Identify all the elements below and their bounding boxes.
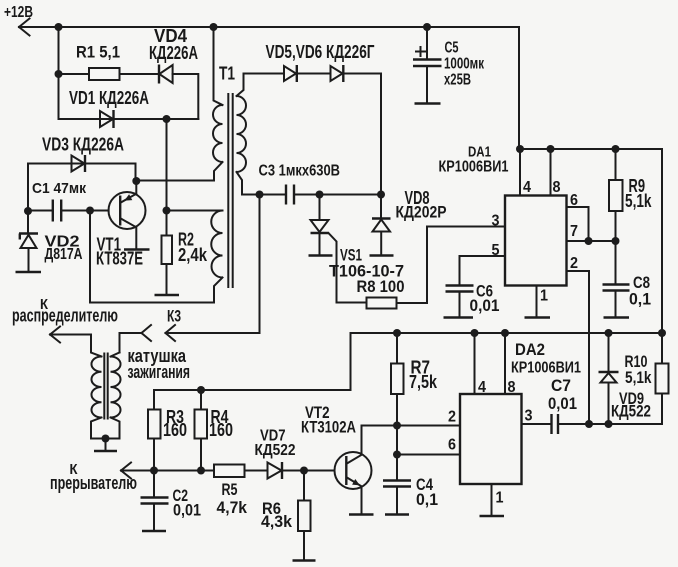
junction dot C1 left node bbox=[24, 207, 32, 215]
capacitor C4 bbox=[383, 455, 438, 514]
svg-text:КД522: КД522 bbox=[611, 402, 651, 421]
diode VD5 bbox=[284, 65, 297, 82]
diode VD9 bbox=[599, 333, 652, 424]
junction dot R1 row bbox=[55, 70, 63, 78]
resistor R2 bbox=[162, 229, 208, 265]
svg-text:К3: К3 bbox=[167, 307, 181, 326]
diode VD4 bbox=[149, 26, 198, 84]
svg-text:0,01: 0,01 bbox=[173, 501, 201, 520]
svg-text:прерывателю: прерывателю bbox=[50, 473, 137, 493]
diode VD1 bbox=[69, 88, 149, 128]
svg-text:КТ837Е: КТ837Е bbox=[96, 249, 143, 269]
ignition coil primary lead bbox=[91, 335, 102, 357]
capacitor C7 bbox=[548, 376, 662, 434]
capacitor C2 bbox=[141, 471, 202, 531]
node +12V supply rail bbox=[4, 4, 519, 36]
svg-text:Т1: Т1 bbox=[219, 63, 235, 83]
pin 1 DA2 wire and label bbox=[492, 484, 504, 515]
svg-text:Д817А: Д817А bbox=[45, 246, 83, 263]
wire left column VD3 to C1 node bbox=[27, 164, 29, 212]
ground coil bbox=[94, 450, 117, 453]
junction dot power row pin8 bbox=[547, 145, 555, 153]
svg-text:С1 47мк: С1 47мк bbox=[32, 180, 86, 197]
op-amp timer DA2 bbox=[460, 341, 581, 484]
pin 5 DA1 wire and label bbox=[460, 242, 506, 286]
pin 8 DA1 bbox=[551, 149, 561, 196]
junction dot C3 row left bbox=[256, 191, 264, 199]
svg-text:0,1: 0,1 bbox=[629, 290, 651, 309]
svg-text:КД202Р: КД202Р bbox=[396, 203, 447, 222]
svg-text:160: 160 bbox=[163, 420, 187, 440]
resistor R10 bbox=[625, 333, 669, 424]
wire VT1 base node down and across to T1 lower winding bottom bbox=[90, 211, 223, 303]
node K3 connector bbox=[120, 307, 260, 341]
transistor VT2 bbox=[301, 403, 372, 513]
junction dot R10 top bbox=[658, 329, 666, 337]
capacitor C6 bbox=[446, 282, 500, 317]
resistor R5 bbox=[214, 465, 268, 518]
svg-text:распределителю: распределителю bbox=[12, 306, 118, 326]
svg-text:4: 4 bbox=[478, 379, 486, 396]
svg-text:2,4k: 2,4k bbox=[178, 245, 208, 265]
svg-text:КР1006ВИ1: КР1006ВИ1 bbox=[511, 360, 581, 377]
wire VD4 to right side of R1 loop bbox=[173, 74, 199, 119]
junction dot VT1 emitter node bbox=[132, 177, 140, 185]
ground VD2 bbox=[16, 271, 42, 274]
ground VT2 emitter bbox=[349, 513, 374, 516]
svg-text:R5: R5 bbox=[222, 480, 238, 499]
capacitor C8 bbox=[603, 241, 652, 317]
ground R2 bbox=[155, 294, 180, 297]
diode VD7 bbox=[255, 428, 335, 480]
junction dot DA2 pin4 top bbox=[471, 329, 479, 337]
junction dot VS1 anode bbox=[316, 191, 324, 199]
svg-text:+12В: +12В bbox=[4, 4, 33, 21]
op-amp timer DA1 bbox=[439, 143, 567, 285]
junction dot VD1 row to R2 branch bbox=[163, 115, 171, 123]
wire R8 to DA1 pin 3 bbox=[397, 227, 506, 304]
resistor R9 bbox=[609, 149, 652, 241]
svg-text:С5: С5 bbox=[445, 40, 459, 57]
junction dot coil bottom bbox=[102, 435, 110, 443]
junction dot VT1 base node bbox=[86, 207, 94, 215]
wire VT2 collector row to DA2 pin2 bbox=[362, 425, 461, 427]
svg-text:зажигания: зажигания bbox=[128, 362, 191, 382]
diode VD3 bbox=[42, 134, 124, 172]
svg-text:3: 3 bbox=[492, 213, 500, 230]
pin 4 DA2 bbox=[475, 333, 487, 396]
wire right power row y333 bbox=[351, 333, 663, 390]
resistor R3 bbox=[148, 390, 187, 471]
wire vertical VD1 row down to R2 bbox=[166, 119, 168, 236]
svg-text:7: 7 bbox=[570, 223, 578, 240]
pin 8 DA2 bbox=[505, 333, 516, 396]
ground C2 bbox=[142, 530, 166, 533]
resistor R8 bbox=[357, 277, 405, 308]
wire R2 bottom lead bbox=[166, 264, 168, 294]
junction dot T1 lower winding top tap bbox=[163, 207, 171, 215]
junction dot R4 bottom node bbox=[197, 467, 205, 475]
svg-text:VD1 КД226А: VD1 КД226А bbox=[69, 88, 149, 108]
svg-text:3: 3 bbox=[525, 408, 533, 425]
svg-text:VD3 КД226А: VD3 КД226А bbox=[42, 134, 124, 154]
pin 3 DA2 wire and label bbox=[522, 408, 552, 425]
svg-text:0,01: 0,01 bbox=[470, 296, 500, 315]
wire R3/R4 rail bbox=[154, 389, 351, 391]
pin 1 DA1 wire and label bbox=[537, 286, 549, 317]
pin 4 DA1 bbox=[520, 149, 531, 196]
svg-text:VD5,VD6 КД226Г: VD5,VD6 КД226Г bbox=[266, 42, 375, 62]
svg-text:5,1k: 5,1k bbox=[625, 191, 652, 211]
capacitor C5 bbox=[413, 27, 485, 103]
junction dot R6 node bbox=[300, 467, 308, 475]
junction dot rail-T1 branch bbox=[210, 23, 218, 31]
wire pin2 node down to pin6 node bbox=[396, 426, 398, 455]
ground C8 bbox=[604, 316, 630, 319]
transistor VT1 bbox=[96, 181, 150, 269]
svg-text:DA2: DA2 bbox=[515, 341, 545, 359]
svg-text:4: 4 bbox=[523, 179, 531, 196]
svg-text:8: 8 bbox=[508, 379, 516, 396]
junction dot DA2 pin8 top bbox=[501, 329, 509, 337]
ground C6 bbox=[444, 316, 474, 319]
svg-text:4,7k: 4,7k bbox=[217, 498, 248, 517]
junction dot VD8 node bbox=[377, 191, 385, 199]
ground VD8 anode bbox=[370, 254, 394, 257]
svg-text:8: 8 bbox=[553, 179, 561, 196]
svg-text:КТ3102А: КТ3102А bbox=[301, 418, 356, 437]
svg-text:R1 5,1: R1 5,1 bbox=[76, 43, 120, 62]
svg-text:2: 2 bbox=[570, 255, 578, 272]
resistor R7 bbox=[391, 333, 438, 426]
wire VD3 row bbox=[28, 164, 136, 182]
wire pin6 row bbox=[397, 454, 460, 456]
resistor R1 bbox=[76, 43, 120, 80]
pin 6 DA1 wire and label bbox=[567, 192, 589, 241]
wire left branch down to R1 and VD1 rows bbox=[58, 27, 60, 119]
svg-text:5: 5 bbox=[492, 242, 500, 259]
wire right edge vertical from power row down bbox=[661, 149, 663, 333]
junction dot R4 top bbox=[197, 386, 205, 394]
junction dot rail-R1 branch bbox=[55, 23, 63, 31]
wire tap to T1 lower winding bbox=[167, 210, 223, 212]
wire VD1 row bbox=[59, 118, 199, 120]
junction dot power row pin4 bbox=[516, 145, 524, 153]
svg-text:1000мк: 1000мк bbox=[444, 56, 485, 73]
pin 7 DA1 wire and label bbox=[567, 223, 617, 241]
zener VD2 bbox=[19, 211, 83, 271]
junction dot pin3 row VD9 bbox=[605, 420, 613, 428]
svg-text:КР1006ВИ1: КР1006ВИ1 bbox=[439, 159, 509, 176]
resistor R4 bbox=[195, 390, 234, 471]
junction dot power row R9 bbox=[612, 145, 620, 153]
junction dot VD9 top bbox=[605, 329, 613, 337]
ground DA2 pin1 bbox=[480, 515, 505, 518]
capacitor C3 bbox=[242, 163, 381, 205]
pin 2 DA1 wire and label bbox=[567, 255, 590, 424]
svg-text:С7: С7 bbox=[551, 376, 571, 395]
junction dot R7 top bbox=[393, 329, 401, 337]
ground VS1 cathode bbox=[309, 254, 333, 257]
svg-text:С3 1мкх630В: С3 1мкх630В bbox=[259, 163, 341, 180]
diode VD6 bbox=[266, 42, 375, 82]
junction dot pin6 row bbox=[393, 451, 401, 459]
svg-text:7,5k: 7,5k bbox=[409, 372, 438, 392]
transformer T1 bbox=[211, 27, 246, 287]
ground C5 bbox=[415, 102, 441, 105]
svg-text:х25В: х25В bbox=[444, 72, 471, 89]
svg-text:160: 160 bbox=[209, 420, 233, 440]
svg-text:КД226А: КД226А bbox=[149, 43, 198, 63]
capacitor C1 bbox=[28, 180, 109, 222]
wire emitter node to T1 upper winding bottom bbox=[136, 162, 222, 181]
node K raspredelitelyu output arrow bbox=[12, 296, 118, 343]
svg-text:1: 1 bbox=[496, 490, 504, 507]
wire C3 row down to K3 row bbox=[259, 195, 261, 334]
resistor R6 bbox=[261, 471, 311, 560]
svg-text:2: 2 bbox=[448, 409, 456, 426]
svg-text:0,01: 0,01 bbox=[548, 394, 577, 413]
ground C4 bbox=[385, 513, 409, 516]
ground DA1 pin1 bbox=[525, 316, 551, 319]
svg-text:4,3k: 4,3k bbox=[261, 512, 293, 531]
junction dot C2 node bbox=[150, 467, 158, 475]
wire VD5/VD6 row bbox=[244, 74, 382, 195]
wire R1 row left lead bbox=[59, 73, 90, 75]
thyristor VS1 bbox=[311, 195, 405, 303]
junction dot pin7-R9 bbox=[612, 237, 620, 245]
wire +12V rail drop to DA1 power row bbox=[519, 27, 662, 149]
svg-text:КД522: КД522 bbox=[255, 442, 296, 459]
svg-text:6: 6 bbox=[570, 192, 578, 209]
junction dot R7 bottom / pin2 row bbox=[393, 422, 401, 430]
junction dot rail-C5 branch bbox=[423, 23, 431, 31]
ignition coil (katushka zazhiganiya) bbox=[91, 333, 190, 450]
node K preryvatelyu arrow bbox=[50, 461, 214, 493]
junction dot pin3 row DA1.2 bbox=[585, 420, 593, 428]
junction dot pin6-pin7 bbox=[585, 237, 593, 245]
svg-text:0,1: 0,1 bbox=[416, 490, 438, 509]
wire R1 to VD4 bbox=[120, 73, 160, 75]
ground R6 bbox=[293, 559, 316, 562]
svg-text:R8 100: R8 100 bbox=[357, 277, 405, 296]
svg-text:5,1k: 5,1k bbox=[625, 368, 652, 387]
diode VD8 bbox=[372, 188, 447, 255]
svg-text:1: 1 bbox=[540, 288, 548, 305]
svg-text:6: 6 bbox=[448, 437, 456, 454]
